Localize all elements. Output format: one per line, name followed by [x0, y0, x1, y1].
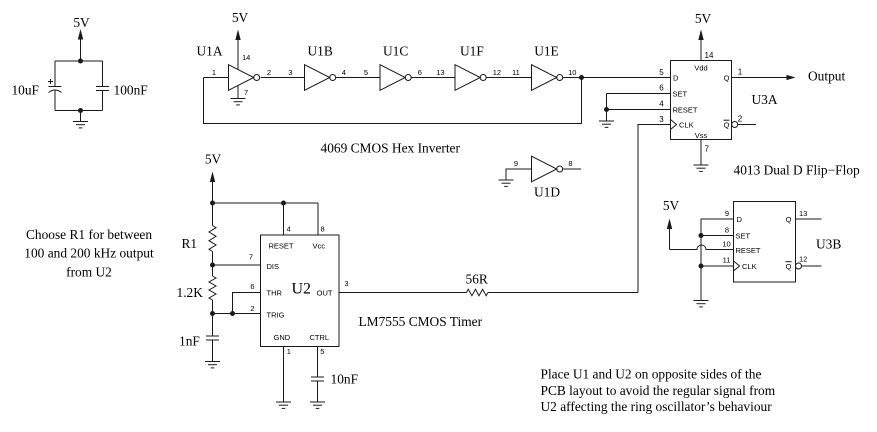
svg-text:4: 4 — [342, 68, 346, 77]
svg-text:8: 8 — [725, 226, 729, 235]
svg-text:PCB layout to avoid the regula: PCB layout to avoid the regular signal f… — [541, 383, 776, 398]
wire OUT to U3A CLK — [488, 292, 638, 294]
svg-text:4: 4 — [287, 225, 291, 234]
power 5V supply (decoupling rail) — [73, 15, 90, 61]
svg-text:U2: U2 — [292, 281, 312, 298]
svg-text:5V: 5V — [695, 11, 712, 26]
svg-text:Q: Q — [724, 74, 730, 83]
wire U1C-U1F — [411, 77, 455, 79]
wire U1F-U1E — [486, 77, 531, 79]
inverter U1A — [197, 44, 260, 91]
svg-text:10: 10 — [722, 240, 730, 249]
capacitor 100nF — [96, 83, 148, 98]
svg-text:12: 12 — [799, 255, 807, 264]
svg-text:1.2K: 1.2K — [177, 285, 204, 300]
wire THR branch — [233, 293, 261, 314]
svg-text:9: 9 — [514, 159, 518, 168]
wire to pin 4 — [283, 203, 285, 235]
wire — [212, 203, 214, 226]
svg-text:THR: THR — [267, 289, 283, 298]
resistor 1.2K — [177, 276, 217, 300]
resistor R1 — [182, 226, 217, 252]
svg-text:5V: 5V — [232, 10, 249, 25]
power 5V supply (U1 pin 14) — [232, 10, 249, 69]
wire to pin 8 — [317, 203, 319, 235]
svg-text:from U2: from U2 — [66, 264, 112, 279]
svg-text:5: 5 — [659, 68, 664, 77]
resistor 56R — [466, 272, 489, 296]
svg-text:D: D — [673, 74, 679, 83]
note placement — [541, 367, 776, 415]
svg-text:1nF: 1nF — [179, 334, 200, 349]
wire top rail — [55, 60, 103, 62]
junction dot — [699, 233, 704, 238]
svg-text:1: 1 — [287, 347, 291, 356]
svg-text:8: 8 — [568, 159, 572, 168]
svg-text:100nF: 100nF — [114, 83, 148, 98]
svg-text:Choose R1 for between: Choose R1 for between — [26, 227, 152, 242]
svg-text:CLK: CLK — [679, 121, 694, 130]
junction dot — [78, 59, 83, 64]
ground — [499, 180, 514, 186]
capacitor 1nF — [179, 334, 219, 349]
wire U1D input — [506, 169, 532, 180]
svg-text:DIS: DIS — [267, 262, 280, 271]
svg-text:7: 7 — [705, 145, 710, 154]
svg-text:100 and 200 kHz output: 100 and 200 kHz output — [24, 246, 154, 261]
wire — [606, 94, 608, 110]
svg-text:CTRL: CTRL — [310, 333, 330, 342]
svg-text:SET: SET — [736, 232, 751, 241]
junction dot — [78, 108, 83, 113]
inverter U1C — [380, 44, 411, 91]
svg-text:5: 5 — [320, 347, 324, 356]
junction dot — [210, 311, 215, 316]
ground (U1 pin 7) — [231, 86, 249, 105]
svg-text:U1D: U1D — [534, 185, 560, 200]
svg-text:5V: 5V — [205, 152, 222, 167]
wire RESET to 5V with hop — [670, 245, 734, 249]
svg-text:13: 13 — [436, 68, 444, 77]
svg-text:4013 Dual D Flip−Flop: 4013 Dual D Flip−Flop — [734, 163, 861, 178]
wire CLK tie — [701, 265, 734, 267]
inverter U1E — [532, 44, 563, 91]
wire — [102, 91, 104, 111]
svg-text:Q: Q — [786, 262, 792, 271]
wire feedback — [204, 78, 582, 124]
svg-text:4: 4 — [659, 100, 664, 109]
wire bottom rail — [55, 110, 103, 112]
wire — [212, 314, 214, 337]
svg-text:2: 2 — [267, 68, 271, 77]
wire — [212, 252, 214, 266]
wire U1A-U1B — [261, 77, 305, 79]
svg-text:Vdd: Vdd — [694, 64, 707, 73]
svg-text:11: 11 — [512, 68, 520, 77]
wire Qbar stub — [802, 265, 822, 267]
wire Qbar stub — [738, 124, 756, 126]
wire U1E output to U3A D — [563, 77, 671, 79]
svg-text:R1: R1 — [182, 236, 198, 251]
svg-text:RESET: RESET — [673, 106, 698, 115]
svg-text:3: 3 — [659, 115, 664, 124]
ground — [310, 402, 325, 408]
wire U1B-U1C — [336, 77, 380, 79]
wire — [212, 265, 214, 276]
wire input U1A — [204, 77, 229, 79]
svg-text:3: 3 — [288, 68, 292, 77]
svg-text:8: 8 — [321, 225, 325, 234]
wire — [102, 61, 104, 87]
svg-text:Q: Q — [786, 215, 792, 224]
svg-text:5V: 5V — [663, 198, 680, 213]
wire — [212, 300, 214, 314]
svg-text:GND: GND — [274, 333, 291, 342]
note R1 choice — [24, 227, 154, 280]
inverter U1F — [455, 44, 486, 91]
wire RESET — [607, 109, 671, 111]
wire SET tie — [701, 235, 734, 237]
svg-text:U1A: U1A — [197, 44, 223, 59]
junction dot — [210, 201, 215, 206]
svg-text:U1F: U1F — [460, 44, 484, 59]
svg-text:RESET: RESET — [736, 246, 761, 255]
svg-text:2: 2 — [250, 304, 254, 313]
svg-text:2: 2 — [738, 115, 743, 124]
wire Q stub — [796, 218, 822, 220]
svg-text:4069 CMOS Hex Inverter: 4069 CMOS Hex Inverter — [321, 141, 461, 156]
wire CTRL — [317, 347, 319, 378]
svg-text:OUT: OUT — [317, 289, 333, 298]
node ring output junction — [579, 75, 584, 80]
svg-text:U1C: U1C — [383, 44, 408, 59]
output arrow — [787, 75, 796, 80]
inverter U1D (unused) — [532, 156, 563, 199]
svg-text:10uF: 10uF — [11, 83, 39, 98]
wire D tie — [701, 219, 734, 301]
ground (U3A SET/RESET) — [599, 110, 614, 128]
ground — [73, 111, 88, 128]
wire CLK — [638, 125, 671, 293]
ground (U3A Vss) — [694, 140, 709, 172]
svg-text:Q: Q — [724, 121, 730, 130]
svg-text:13: 13 — [799, 209, 807, 218]
flip-flop U3B — [734, 202, 796, 283]
svg-text:10: 10 — [568, 68, 576, 77]
svg-text:U2 affecting the ring oscillat: U2 affecting the ring oscillator’s behav… — [541, 399, 773, 414]
power 5V supply (U3A Vdd pin 14) — [695, 11, 712, 61]
wire Q output — [732, 77, 788, 79]
svg-text:Output: Output — [808, 69, 845, 84]
wire — [212, 340, 214, 362]
junction dot — [210, 263, 215, 268]
svg-text:7: 7 — [249, 253, 253, 262]
svg-text:SET: SET — [673, 90, 688, 99]
svg-text:5: 5 — [364, 68, 368, 77]
svg-text:U3B: U3B — [816, 237, 841, 252]
wire U1D output stub — [563, 168, 581, 170]
svg-text:14: 14 — [705, 51, 714, 60]
svg-text:U3A: U3A — [752, 92, 778, 107]
flip-flop U3A — [671, 61, 732, 141]
svg-text:5V: 5V — [73, 15, 90, 30]
ground — [205, 362, 220, 368]
svg-text:TRIG: TRIG — [267, 311, 285, 320]
wire GND — [283, 347, 285, 403]
wire OUT — [339, 292, 467, 294]
svg-text:D: D — [737, 215, 743, 224]
timer U2 box — [261, 235, 340, 347]
svg-text:U1B: U1B — [308, 44, 333, 59]
inverter U1B — [305, 44, 336, 91]
svg-text:6: 6 — [418, 68, 422, 77]
wire — [54, 61, 56, 87]
junction dot — [699, 264, 704, 269]
capacitor 10nF — [311, 372, 358, 387]
svg-text:6: 6 — [659, 84, 664, 93]
svg-text:6: 6 — [250, 282, 254, 291]
svg-text:1: 1 — [212, 68, 216, 77]
power 5V supply (U3B RESET) — [663, 198, 680, 250]
wire — [54, 91, 56, 111]
ground (U3B) — [694, 301, 709, 307]
svg-text:11: 11 — [723, 256, 731, 265]
bubble Qbar U3B — [796, 263, 802, 269]
svg-text:10nF: 10nF — [331, 372, 359, 387]
junction dot — [281, 201, 286, 206]
svg-text:56R: 56R — [466, 272, 488, 287]
svg-text:CLK: CLK — [742, 262, 757, 271]
wire — [317, 381, 319, 402]
svg-text:RESET: RESET — [269, 242, 294, 251]
power 5V supply (U2) — [205, 152, 222, 204]
wire SET — [607, 93, 671, 95]
bubble Qbar U3A — [732, 122, 738, 128]
svg-text:LM7555 CMOS Timer: LM7555 CMOS Timer — [359, 314, 483, 329]
svg-text:Vcc: Vcc — [313, 242, 326, 251]
svg-text:1: 1 — [738, 68, 743, 77]
ground — [276, 402, 291, 408]
svg-text:Vss: Vss — [695, 131, 708, 140]
junction dot — [604, 107, 609, 112]
junction dot — [230, 311, 235, 316]
wire DIS — [213, 264, 261, 266]
capacitor 10uF (polarized) — [11, 79, 61, 98]
wire TRIG — [213, 313, 261, 315]
svg-text:7: 7 — [244, 88, 248, 97]
svg-text:14: 14 — [242, 53, 250, 62]
svg-text:12: 12 — [493, 68, 501, 77]
svg-text:U1E: U1E — [534, 44, 559, 59]
svg-text:Place U1 and U2 on opposite si: Place U1 and U2 on opposite sides of the — [541, 367, 762, 382]
svg-text:3: 3 — [344, 279, 348, 288]
wire Vcc rail — [213, 202, 319, 204]
svg-text:9: 9 — [725, 209, 729, 218]
